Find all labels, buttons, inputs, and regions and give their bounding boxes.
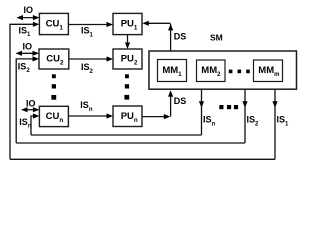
IO port arrow of CU2 xyxy=(16,42,40,56)
wire IS1 feedback into CU1 xyxy=(10,22,39,160)
wire DS from SM to PU1 xyxy=(142,21,186,51)
wire IS1 from CU1 to PU1 xyxy=(68,22,113,39)
wire IS2 feedback into CU2 xyxy=(16,56,39,143)
wire PU1 to PU2 xyxy=(125,35,130,49)
block CU1 xyxy=(39,13,68,34)
svg-text:SM: SM xyxy=(210,33,223,43)
svg-text:IO: IO xyxy=(24,5,34,15)
IO port arrow of CU1 xyxy=(17,5,40,20)
svg-text:DS: DS xyxy=(174,31,187,41)
wire IS2 from CU2 to PU2 xyxy=(69,56,113,74)
IO port arrow of CUn xyxy=(21,99,39,113)
ellipsis between MM2 and MMm xyxy=(229,70,250,74)
ellipsis below CU2 xyxy=(51,74,56,99)
block PU2 xyxy=(113,49,142,69)
wire ISn feedback into CUn xyxy=(19,113,39,135)
block MM2 xyxy=(197,60,226,82)
wire IS2 from SM around to CU2 xyxy=(16,90,259,143)
block SM (shared memory) xyxy=(149,33,297,90)
wire DS from PUn to SM xyxy=(142,90,186,119)
block CU2 xyxy=(39,49,69,69)
block PU1 xyxy=(113,13,142,34)
svg-text:IO: IO xyxy=(23,42,33,52)
ellipsis below PU2 xyxy=(124,74,129,99)
ellipsis between ISn and IS2 drops xyxy=(219,105,238,109)
svg-text:DS: DS xyxy=(174,96,187,106)
block CUn xyxy=(39,106,68,126)
wire ISn from CUn to PUn xyxy=(68,100,113,118)
block PUn xyxy=(113,106,142,127)
wire ISn from SM around to CUn xyxy=(31,90,216,135)
block MMm xyxy=(254,60,283,82)
wire IS1 from SM around to CU1 xyxy=(10,90,289,160)
block MM1 xyxy=(158,60,187,82)
svg-text:IO: IO xyxy=(26,99,36,109)
